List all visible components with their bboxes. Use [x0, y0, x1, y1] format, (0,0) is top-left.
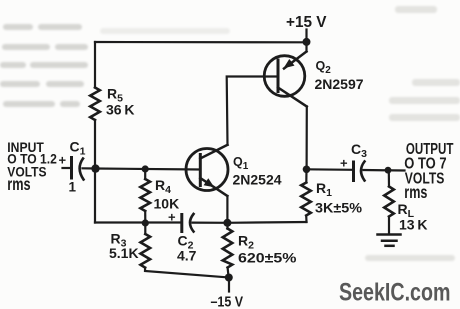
wire bottom rail to -15V [145, 268, 229, 278]
wire R1 bottom lead [305, 216, 307, 223]
wire Q2 emitter to +15 node [305, 42, 307, 52]
svg-text:36 K: 36 K [106, 102, 135, 118]
svg-text:13 K: 13 K [399, 217, 428, 233]
node R4/R3 junction [142, 219, 149, 226]
arrow Q1 emitter (NPN, pointing out) [204, 178, 215, 187]
wire Q1 collector vertical up to Q2 base [227, 77, 278, 145]
svg-text:rms: rms [7, 174, 30, 194]
resistor R4 [140, 179, 150, 211]
svg-text:–15 V: –15 V [211, 294, 244, 309]
wire lower horizontal (left of C2) [95, 221, 181, 223]
wire top rail +15V [95, 41, 307, 43]
wire R2 bottom lead [228, 268, 229, 278]
wire RL bottom lead [388, 217, 390, 234]
svg-text:+: + [168, 210, 176, 225]
wire node to R1 bottom corner [227, 221, 306, 224]
wire left vertical upper (to R5) [94, 42, 96, 88]
svg-text:4.7: 4.7 [177, 248, 197, 264]
transistor Q1 [186, 145, 228, 196]
wire R2 top lead [226, 223, 228, 229]
svg-text:3K±5%: 3K±5% [315, 200, 363, 216]
label OUTPUT block [404, 141, 453, 202]
svg-text:+: + [59, 153, 67, 168]
svg-text:5.1K: 5.1K [109, 245, 139, 261]
resistor R2 [223, 229, 233, 268]
node C1/base junction [91, 164, 99, 172]
svg-text:2N2597: 2N2597 [315, 76, 364, 92]
wire R1 top lead to node [305, 169, 307, 182]
capacitor C1 [72, 158, 84, 180]
svg-text:+15 V: +15 V [286, 14, 327, 31]
wire Q2 collector vertical [306, 107, 308, 170]
wire node to C3 [307, 168, 353, 171]
wire C1 input lead [63, 167, 71, 169]
capacitor C3 [354, 162, 365, 181]
wire C2 right to node [193, 222, 228, 224]
node +15V junction [303, 38, 311, 46]
resistor R3 [141, 234, 151, 268]
resistor RL [384, 187, 394, 217]
wire Q1 emitter vertical down [226, 196, 228, 223]
wire +15V stub [305, 30, 307, 43]
resistor R5 [90, 88, 100, 121]
wire C1 to node [83, 167, 96, 169]
svg-text:rms: rms [404, 182, 427, 202]
wire left vertical lower [94, 120, 96, 223]
node output junction [385, 167, 392, 174]
node R4 top [142, 165, 149, 172]
wire RL top lead [388, 170, 390, 186]
svg-text:2N2524: 2N2524 [233, 172, 282, 188]
transistor Q2 [264, 52, 307, 107]
wire -15V stub [228, 278, 230, 292]
node emitter/C2/R2/R1 junction [223, 219, 231, 227]
svg-text:+: + [340, 156, 348, 171]
svg-text:1: 1 [69, 179, 77, 194]
capacitor C2 [182, 214, 194, 232]
wire R3 top lead [144, 223, 146, 234]
wire C3 to output [364, 169, 405, 172]
arrow Q2 emitter (PNP, pointing in) [283, 59, 294, 68]
svg-text:SeekIC.com: SeekIC.com [339, 279, 451, 307]
wire R4 bottom lead [144, 211, 146, 223]
label INPUT block [7, 139, 57, 194]
svg-text:620±5%: 620±5% [238, 250, 297, 266]
resistor R1 [301, 183, 311, 216]
ground [378, 235, 401, 246]
node Q2 collector/R1/C3 junction [303, 166, 311, 174]
node -15V junction [225, 274, 233, 282]
wire base of Q1 [96, 169, 201, 170]
wire R4 top lead [144, 169, 146, 179]
